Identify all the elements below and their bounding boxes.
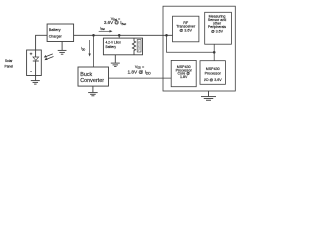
svg-text:Transceiver: Transceiver (176, 25, 196, 29)
svg-text:Panel: Panel (5, 64, 14, 68)
wire solar to battery charger (36, 35, 48, 50)
node junction module (165, 34, 168, 37)
svg-text:Battery: Battery (49, 27, 61, 32)
current arrow Ibat (99, 26, 113, 32)
Vdd annotation (127, 65, 151, 76)
svg-text:Battery: Battery (106, 45, 117, 49)
photodiode D1 (33, 50, 39, 76)
svg-text:Converter: Converter (80, 78, 104, 84)
MSP430 core box U5 (171, 60, 196, 86)
svg-text:Solar: Solar (5, 59, 14, 63)
light arrow 1 (44, 54, 53, 58)
battery internal resistor (132, 38, 135, 55)
current arrow Idd (81, 40, 91, 57)
svg-text:@ 3.6V: @ 3.6V (179, 28, 192, 32)
node junction buck (92, 34, 95, 37)
Vbat annotation (104, 17, 126, 26)
ground (battery charger) (58, 42, 67, 55)
svg-text:Processor: Processor (205, 71, 222, 75)
solar cell box PV (27, 50, 42, 76)
ground (battery) (111, 55, 120, 67)
module outer box (163, 6, 235, 91)
svg-text:Peripherals: Peripherals (208, 25, 226, 29)
node junction distribution (213, 51, 216, 54)
svg-text:4.2-V LiIon: 4.2-V LiIon (106, 41, 122, 45)
svg-text:MSP430: MSP430 (206, 67, 220, 71)
svg-text:Buck: Buck (80, 72, 92, 78)
svg-text:Charger: Charger (49, 34, 63, 39)
battery charger U1 (47, 24, 74, 42)
svg-text:1.8V: 1.8V (180, 75, 188, 79)
wire rail to battery box (118, 35, 121, 38)
ground (buck converter) (88, 86, 98, 96)
wire 3.6V rail (74, 34, 173, 37)
wire sensor to io (213, 44, 216, 61)
RF transceiver U3 (173, 16, 199, 42)
ground (module) (201, 91, 216, 100)
svg-text:I/O @ 3.6V: I/O @ 3.6V (204, 78, 223, 82)
battery cell element (137, 40, 141, 52)
wire rail to buck converter (92, 35, 95, 67)
wire module 3.6V distribution (167, 35, 215, 52)
LiIon battery BT1 (103, 38, 142, 55)
light arrow 2 (44, 57, 53, 61)
solar panel label (5, 59, 14, 69)
svg-text:@ 3.6V: @ 3.6V (211, 30, 224, 34)
svg-text:+: + (30, 52, 33, 57)
wire buck output 1.8V (109, 77, 172, 80)
node junction battery (118, 34, 121, 37)
ground (solar) (31, 76, 40, 85)
measuring sensor box U4 (205, 12, 232, 44)
MSP430 io box U6 (200, 61, 225, 85)
buck converter U2 (78, 67, 109, 86)
